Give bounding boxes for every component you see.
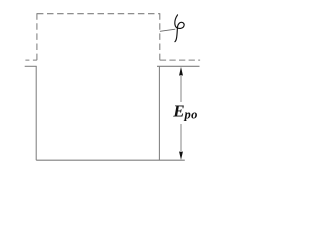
phi symbol (hand-drawn varphi) [175,15,184,42]
dashed raised-barrier top edge [37,13,160,15]
leader line to phi [160,29,175,31]
solid left top stub [25,65,37,67]
solid left wall [35,66,37,160]
dashed left vertical [36,13,38,60]
dashed left stub [24,59,37,61]
solid bottom line [36,159,185,161]
solid right top stub [157,65,200,67]
dashed right vertical [159,13,161,60]
dashed right stub [160,59,200,61]
solid right wall [158,66,160,160]
svg-text:Epo: Epo [172,101,198,121]
E_po dimension arrow: upper arrowhead [179,67,183,76]
E_po dimension arrow: upper shaft [180,75,182,103]
E_po dimension arrow: lower arrowhead [179,151,183,160]
E_po dimension arrow: lower shaft [180,124,182,153]
